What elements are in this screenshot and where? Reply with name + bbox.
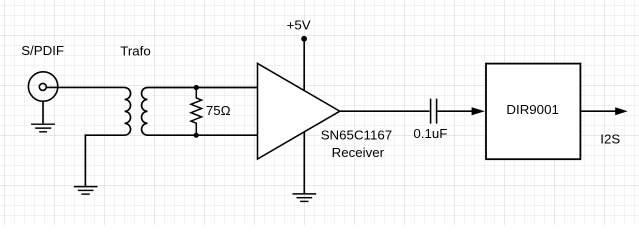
junction node bottom of R1 <box>194 133 199 138</box>
capacitor C1 left plate <box>430 99 432 124</box>
svg-text:S/PDIF: S/PDIF <box>21 43 64 58</box>
transformer T1 primary winding (left) <box>125 88 131 136</box>
wire receiver ground pin down <box>303 132 305 194</box>
svg-text:0.1uF: 0.1uF <box>413 126 447 141</box>
IC U2 DIR9001 box <box>486 64 580 160</box>
svg-text:I2S: I2S <box>600 132 620 147</box>
ground under transformer <box>74 187 98 195</box>
capacitor C1 right plate <box>436 99 438 124</box>
wire DIR9001 output with arrowhead <box>580 110 616 112</box>
junction node top of R1 <box>194 85 199 90</box>
arrowhead I2S output <box>615 107 627 115</box>
svg-text:Receiver: Receiver <box>332 145 385 160</box>
arrowhead into DIR9001 <box>472 107 485 115</box>
svg-text:75Ω: 75Ω <box>206 103 231 118</box>
ground under RCA connector <box>31 124 55 132</box>
ground under receiver <box>293 194 317 202</box>
wire RCA shield stub down <box>42 101 44 123</box>
op-amp U1 receiver triangle <box>258 63 340 159</box>
wire transformer secondary bottom to receiver input- <box>148 134 259 136</box>
wire +5V to receiver power pin <box>303 39 305 91</box>
svg-text:Trafo: Trafo <box>120 44 151 59</box>
wire C1 to DIR9001 input with arrowhead <box>437 110 472 112</box>
transformer T1 secondary winding (right) <box>142 88 148 136</box>
wire RCA center to transformer primary top <box>46 86 124 88</box>
wire receiver output to C1 <box>340 110 430 112</box>
wire transformer primary bottom to ground <box>85 135 124 186</box>
svg-text:SN65C1167: SN65C1167 <box>321 128 392 143</box>
wire transformer secondary top to receiver input+ <box>148 87 259 89</box>
resistor R1 75 ohm <box>191 90 202 133</box>
node +5V dot <box>301 36 307 42</box>
svg-text:DIR9001: DIR9001 <box>506 102 558 117</box>
svg-text:+5V: +5V <box>287 18 311 33</box>
connector J1 S/PDIF RCA jack <box>28 72 57 101</box>
